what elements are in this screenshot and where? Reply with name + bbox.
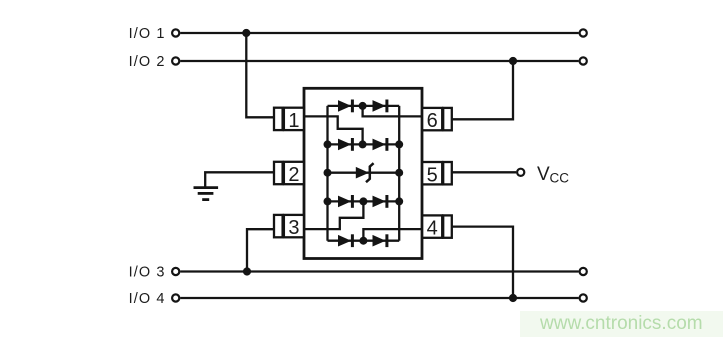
terminal Vcc: [517, 169, 524, 176]
terminal I/O 2 left: [172, 57, 179, 64]
junction dot row1 tap: [359, 102, 367, 110]
pin 5: [422, 162, 452, 186]
diode D2b row2 right: [373, 138, 389, 151]
diode D4a row4 left: [338, 195, 354, 208]
ground: [194, 188, 219, 200]
pin 3: [274, 215, 304, 239]
junction dot I/O2-pin6: [509, 57, 517, 65]
terminal I/O 2 right: [580, 57, 587, 64]
pin 2: [274, 162, 304, 186]
svg-text:CC: CC: [550, 171, 570, 186]
svg-text:6: 6: [427, 110, 438, 132]
svg-text:I/O 4: I/O 4: [129, 291, 166, 307]
svg-text:2: 2: [288, 164, 299, 186]
wire row5 tap to pin4 net: [363, 229, 422, 241]
svg-text:1: 1: [288, 110, 299, 132]
wire I/O 4 line: [180, 297, 579, 299]
wire pin3 net to row4 tap: [304, 201, 363, 229]
junction dot I/O3-pin3: [243, 267, 251, 275]
wire GND rail left: [326, 106, 328, 241]
wire Vcc rail right: [398, 106, 400, 241]
terminal I/O 4 left: [172, 294, 179, 301]
wire I/O1 to pin 1: [246, 33, 274, 117]
svg-text:www.cntronics.com: www.cntronics.com: [539, 313, 703, 334]
terminal I/O 4 right: [580, 294, 587, 301]
wire I/O3 to pin 3: [247, 229, 274, 271]
wire I/O 2 line: [180, 60, 579, 62]
pin 1: [274, 108, 304, 132]
junction dot row2 tap: [359, 140, 367, 148]
junction dot rail left zener: [324, 169, 332, 177]
wire pin 2 to ground: [205, 172, 274, 186]
wire row 4: [328, 200, 400, 202]
wire pin 5 to Vcc terminal: [452, 171, 516, 173]
wire I/O 3 line: [180, 270, 579, 272]
svg-text:I/O 1: I/O 1: [129, 26, 166, 42]
junction dot row5 tap: [359, 237, 367, 245]
IC body U1: [304, 88, 422, 258]
pin 6: [422, 108, 452, 132]
junction dot rail right row2: [395, 140, 403, 148]
wire row 1: [328, 105, 400, 107]
diode D5b row5 right: [373, 234, 389, 247]
wire I/O2 to pin 6: [452, 61, 513, 119]
junction dot rail right zener: [395, 169, 403, 177]
watermark band: [520, 311, 723, 337]
wire row 2: [328, 143, 400, 145]
svg-text:5: 5: [427, 164, 438, 186]
junction dot I/O1-pin1: [242, 29, 250, 37]
junction dot rail left row4: [324, 197, 332, 205]
wire I/O 1 line: [180, 32, 579, 34]
wire I/O4 to pin 4: [452, 227, 513, 298]
junction dot I/O4-pin4: [509, 294, 517, 302]
wire zener row: [328, 172, 400, 174]
diode D1a row1 left: [338, 100, 354, 113]
terminal I/O 3 right: [580, 268, 587, 275]
svg-text:4: 4: [427, 218, 438, 240]
svg-text:3: 3: [288, 217, 299, 239]
terminal I/O 3 left: [172, 268, 179, 275]
junction dot rail left row2: [324, 140, 332, 148]
diode D5a row5 left: [338, 234, 354, 247]
diode D4b row4 right: [373, 195, 389, 208]
svg-text:I/O 3: I/O 3: [129, 265, 166, 281]
svg-text:I/O 2: I/O 2: [129, 54, 166, 70]
pin 4: [422, 215, 452, 239]
wire row 5: [328, 240, 400, 242]
svg-text:V: V: [537, 164, 550, 185]
terminal I/O 1 right: [580, 29, 587, 36]
zener TVS diode: [356, 163, 374, 182]
terminal I/O 1 left: [172, 29, 179, 36]
diode D2a row2 left: [338, 138, 354, 151]
diode D1b row1 right: [373, 100, 389, 113]
wire pin1 net to row2 tap: [304, 116, 363, 144]
junction dot rail right row4: [395, 197, 403, 205]
junction dot row4 tap: [359, 197, 367, 205]
wire row1 tap to pin6 net: [363, 106, 422, 117]
